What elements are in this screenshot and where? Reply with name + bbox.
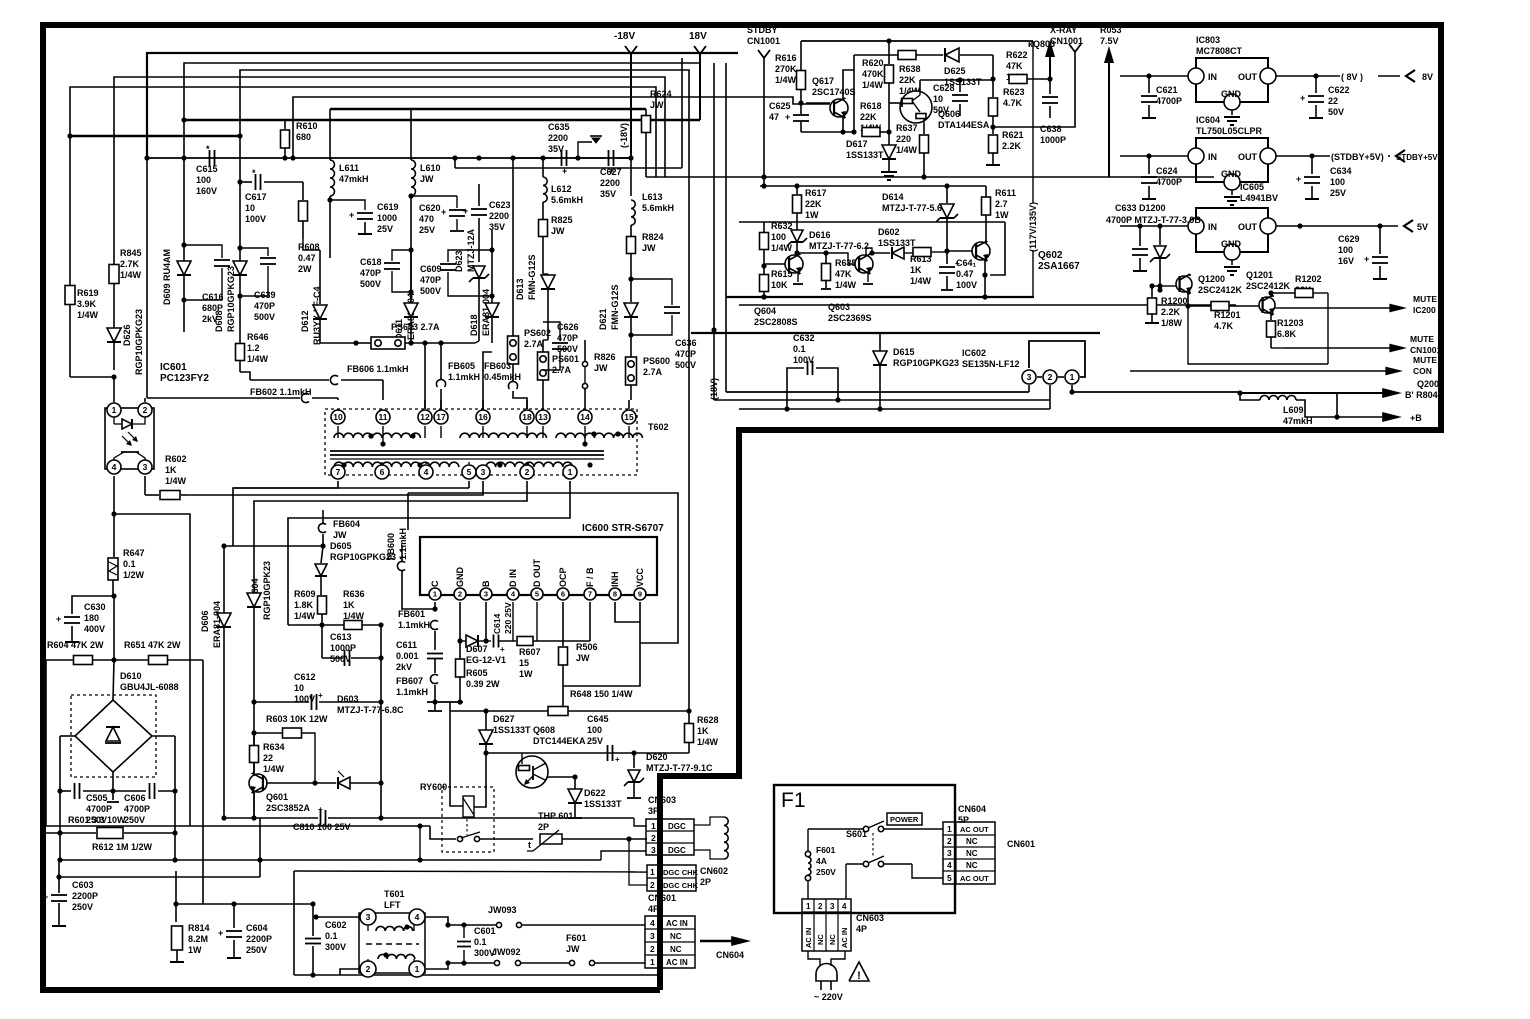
svg-text:2.7: 2.7: [995, 199, 1008, 209]
svg-text:2: 2: [143, 405, 148, 415]
svg-text:PS602: PS602: [524, 328, 551, 338]
wire sec rail y158: [147, 157, 631, 159]
svg-text:OUT: OUT: [1238, 152, 1258, 162]
svg-text:CON: CON: [1413, 366, 1432, 376]
svg-text:4P: 4P: [856, 924, 867, 934]
wire q606 collector rail: [920, 79, 993, 81]
wire pin16 up: [483, 352, 492, 409]
svg-text:4700P: 4700P: [1156, 96, 1182, 106]
svg-text:470: 470: [419, 214, 434, 224]
svg-text:AC IN: AC IN: [666, 919, 688, 928]
wire cn602 feeds: [629, 839, 647, 885]
svg-text:DGC CHK: DGC CHK: [663, 881, 699, 890]
svg-text:+: +: [1300, 93, 1305, 103]
svg-text:C606: C606: [124, 793, 146, 803]
svg-text:FB600: FB600: [386, 533, 396, 560]
wire y753 line: [486, 752, 575, 754]
svg-text:1000P: 1000P: [1040, 135, 1066, 145]
svg-text:D OUT: D OUT: [532, 559, 542, 588]
svg-text:C604: C604: [246, 923, 268, 933]
svg-text:R637: R637: [896, 123, 918, 133]
svg-text:NC: NC: [966, 837, 978, 846]
svg-text:2: 2: [947, 836, 952, 846]
svg-text:(18V): (18V): [709, 378, 719, 400]
svg-text:JW: JW: [551, 226, 565, 236]
wire y904 row: [175, 871, 177, 904]
svg-text:1/4W: 1/4W: [294, 611, 316, 621]
svg-text:2200P: 2200P: [72, 891, 98, 901]
svg-text:R624: R624: [650, 89, 672, 99]
svg-text:1: 1: [651, 821, 656, 831]
wire control bottom mini-rail: [801, 131, 855, 133]
svg-text:D605: D605: [330, 541, 352, 551]
svg-text:D IN: D IN: [508, 569, 518, 587]
wire L6 top rail: [330, 108, 646, 110]
svg-text:2200P: 2200P: [246, 934, 272, 944]
svg-text:C633 D1200: C633 D1200: [1115, 203, 1166, 213]
svg-text:1/2W: 1/2W: [123, 570, 145, 580]
svg-text:R053: R053: [1100, 25, 1122, 35]
svg-text:C505: C505: [86, 793, 108, 803]
svg-text:3: 3: [651, 845, 656, 855]
transformer T602 core: [330, 450, 604, 452]
wire row ac4: [448, 924, 496, 926]
svg-text:C625: C625: [769, 101, 791, 111]
svg-text:4: 4: [947, 860, 952, 870]
svg-text:2.2K: 2.2K: [1161, 307, 1181, 317]
svg-text:3: 3: [366, 912, 371, 922]
svg-text:JW: JW: [576, 653, 590, 663]
svg-text:4.7K: 4.7K: [1214, 321, 1234, 331]
wire R612 row: [59, 833, 61, 860]
svg-text:R619: R619: [77, 288, 99, 298]
svg-text:NC: NC: [670, 932, 682, 941]
svg-text:( 8V ): ( 8V ): [1341, 72, 1363, 82]
ground near C635: [578, 142, 592, 158]
svg-text:+: +: [1296, 174, 1301, 184]
svg-text:5P: 5P: [958, 815, 969, 825]
svg-text:1.2: 1.2: [247, 343, 260, 353]
svg-text:D606: D606: [200, 610, 210, 632]
svg-text:+: +: [500, 645, 505, 654]
svg-text:2W: 2W: [298, 264, 312, 274]
svg-text:3: 3: [830, 902, 835, 911]
svg-text:OCP: OCP: [558, 567, 568, 587]
svg-text:35V: 35V: [489, 222, 505, 232]
svg-text:1/4W: 1/4W: [697, 737, 719, 747]
svg-text:8: 8: [613, 590, 617, 599]
svg-text:22: 22: [263, 753, 273, 763]
svg-text:R1201: R1201: [1214, 310, 1241, 320]
svg-text:680: 680: [296, 132, 311, 142]
F1 box: [774, 785, 955, 913]
svg-text:L609: L609: [1283, 405, 1304, 415]
svg-text:RGP10GPKG23: RGP10GPKG23: [893, 358, 959, 368]
svg-text:+: +: [318, 691, 323, 700]
svg-text:9: 9: [638, 590, 642, 599]
svg-text:1.1mkH: 1.1mkH: [398, 528, 408, 560]
svg-text:8V: 8V: [1422, 72, 1433, 82]
svg-text:MTZJ-T-77-5.6C: MTZJ-T-77-5.6C: [882, 203, 949, 213]
svg-text:C635: C635: [548, 122, 570, 132]
svg-text:C609: C609: [420, 264, 442, 274]
svg-text:NC: NC: [966, 861, 978, 870]
svg-text:R814: R814: [188, 923, 210, 933]
svg-text:C645: C645: [587, 714, 609, 724]
svg-text:47mkH: 47mkH: [339, 174, 369, 184]
svg-text:IC200: IC200: [1413, 305, 1436, 315]
svg-text:0.001: 0.001: [396, 651, 419, 661]
svg-text:1/4W: 1/4W: [165, 476, 187, 486]
svg-text:C619: C619: [377, 202, 399, 212]
svg-text:1: 1: [947, 824, 952, 834]
svg-text:2P: 2P: [538, 822, 549, 832]
svg-text:Q604: Q604: [754, 306, 776, 316]
svg-text:25V: 25V: [1330, 188, 1346, 198]
svg-text:AC IN: AC IN: [804, 928, 813, 948]
svg-text:F601: F601: [816, 845, 836, 855]
svg-text:C603: C603: [72, 880, 94, 890]
svg-text:C636: C636: [675, 338, 697, 348]
wire FB602 left: [146, 158, 148, 398]
svg-text:18V: 18V: [689, 31, 707, 42]
svg-text:0.1: 0.1: [123, 559, 136, 569]
svg-text:1/4W: 1/4W: [263, 764, 285, 774]
svg-text:25V: 25V: [587, 736, 603, 746]
svg-text:MUTE: MUTE: [1413, 294, 1437, 304]
wire bus nest top-left: [147, 53, 738, 160]
diode D1200 zener: [1154, 246, 1166, 258]
wire STDBY+5V output: [1120, 155, 1188, 157]
wire control top rail: [801, 40, 1033, 42]
svg-text:1: 1: [568, 467, 573, 477]
svg-text:1/4W: 1/4W: [862, 80, 884, 90]
svg-text:50V: 50V: [933, 105, 949, 115]
svg-text:(STDBY+5V): (STDBY+5V): [1331, 152, 1384, 162]
wire s601 bottom: [846, 863, 863, 865]
svg-text:C614: C614: [492, 613, 502, 634]
arrow CN604 out: [700, 940, 737, 943]
svg-text:R605: R605: [466, 668, 488, 678]
wire t602 pin7 chain: [233, 481, 338, 546]
svg-text:2SC2369S: 2SC2369S: [828, 313, 872, 323]
svg-text:0.39 2W: 0.39 2W: [466, 679, 500, 689]
svg-text:5V: 5V: [1417, 222, 1428, 232]
wire snubber top feeds: [410, 250, 412, 302]
svg-text:250V: 250V: [124, 815, 145, 825]
svg-text:3.9K: 3.9K: [77, 299, 97, 309]
svg-text:4700P: 4700P: [1156, 177, 1182, 187]
svg-text:300V: 300V: [325, 942, 346, 952]
svg-text:R616: R616: [775, 53, 797, 63]
svg-text:Q603: Q603: [828, 302, 850, 312]
svg-text:R618: R618: [860, 101, 882, 111]
svg-text:MTZJ-T-77-6.8C: MTZJ-T-77-6.8C: [337, 705, 404, 715]
svg-text:16: 16: [478, 412, 488, 422]
svg-text:DGC: DGC: [668, 822, 686, 831]
svg-text:IC602: IC602: [962, 348, 986, 358]
svg-text:R628: R628: [697, 715, 719, 725]
svg-text:MUTE: MUTE: [1410, 334, 1434, 344]
svg-text:R824: R824: [642, 232, 664, 242]
svg-text:D610: D610: [120, 671, 142, 681]
svg-text:470P: 470P: [254, 301, 275, 311]
svg-text:2SC3852A: 2SC3852A: [266, 803, 311, 813]
svg-text:F1: F1: [781, 789, 806, 812]
svg-text:100: 100: [196, 175, 211, 185]
svg-text:DGC CHK: DGC CHK: [663, 868, 699, 877]
svg-text:6: 6: [380, 467, 385, 477]
wire t602 pin5 chain: [468, 481, 470, 488]
svg-text:6: 6: [561, 590, 565, 599]
svg-text:4A: 4A: [816, 856, 827, 866]
svg-text:TL750L05CLPR: TL750L05CLPR: [1196, 126, 1263, 136]
svg-text:D617: D617: [846, 139, 868, 149]
svg-text:0.1: 0.1: [793, 344, 806, 354]
warning triangle: [849, 962, 869, 981]
svg-text:MC7808CT: MC7808CT: [1196, 46, 1243, 56]
svg-text:CN602: CN602: [700, 866, 728, 876]
svg-text:1/4W: 1/4W: [835, 280, 857, 290]
svg-text:JW: JW: [333, 530, 347, 540]
svg-text:C630: C630: [84, 602, 106, 612]
IC600 pins: [429, 588, 441, 600]
svg-text:100: 100: [1330, 177, 1345, 187]
svg-text:500V: 500V: [330, 654, 351, 664]
svg-text:1: 1: [650, 867, 655, 877]
transformer T602 top pins: [331, 410, 345, 424]
svg-text:VCC: VCC: [635, 567, 645, 587]
degauss coil: [694, 817, 724, 825]
svg-text:7.5V: 7.5V: [1100, 36, 1119, 46]
svg-text:*: *: [252, 168, 256, 178]
svg-text:2: 2: [650, 880, 655, 890]
wire cn603 plug: [808, 951, 820, 966]
svg-text:D620: D620: [646, 752, 668, 762]
svg-text:2: 2: [650, 944, 655, 954]
svg-text:2200: 2200: [600, 178, 620, 188]
svg-text:1SS133T: 1SS133T: [846, 150, 884, 160]
svg-text:100V: 100V: [793, 355, 814, 365]
svg-text:Q601: Q601: [266, 792, 288, 802]
svg-text:STDBY+5V: STDBY+5V: [1396, 153, 1438, 162]
svg-text:R607: R607: [519, 647, 541, 657]
svg-text:C620: C620: [419, 203, 441, 213]
svg-text:1SS133T: 1SS133T: [878, 238, 916, 248]
svg-text:15: 15: [624, 412, 634, 422]
wire y877 rail: [59, 876, 260, 878]
svg-text:GND: GND: [1221, 89, 1242, 99]
svg-text:D614: D614: [882, 192, 904, 202]
svg-text:NC: NC: [670, 945, 682, 954]
svg-text:250V: 250V: [816, 867, 836, 877]
svg-text:L4941BV: L4941BV: [1240, 193, 1278, 203]
svg-text:C629: C629: [1338, 234, 1360, 244]
svg-text:R825: R825: [551, 215, 573, 225]
svg-text:13: 13: [538, 412, 548, 422]
wire R638 line: [854, 54, 898, 56]
wire row2 bottom rail: [726, 296, 1034, 298]
svg-text:1: 1: [806, 902, 811, 911]
svg-text:C601: C601: [474, 926, 496, 936]
svg-text:22: 22: [1328, 96, 1338, 106]
wire t602 pin1 chain: [288, 481, 570, 625]
svg-text:22K: 22K: [899, 75, 916, 85]
svg-text:1/4W: 1/4W: [77, 310, 99, 320]
svg-text:3: 3: [947, 848, 952, 858]
svg-text:1W: 1W: [519, 669, 533, 679]
svg-text:DGC: DGC: [668, 846, 686, 855]
wire mid horizontals: [224, 545, 323, 547]
svg-text:t: t: [528, 840, 531, 850]
POWER label: [887, 813, 922, 825]
svg-text:3: 3: [484, 590, 488, 599]
svg-text:L612: L612: [551, 184, 572, 194]
svg-text:2: 2: [651, 833, 656, 843]
svg-text:+: +: [349, 210, 354, 220]
svg-text:+B: +B: [1410, 413, 1422, 423]
svg-text:2: 2: [458, 590, 462, 599]
svg-text:10: 10: [933, 94, 943, 104]
wire bottom rail y975: [294, 974, 658, 976]
svg-text:1/4W: 1/4W: [771, 243, 793, 253]
wire bus crossing verticals: [681, 58, 683, 168]
svg-text:2P: 2P: [700, 877, 711, 887]
svg-text:IC604: IC604: [1196, 115, 1220, 125]
svg-text:R612 1M 1/2W: R612 1M 1/2W: [92, 842, 153, 852]
svg-text:2SC2412K: 2SC2412K: [1246, 281, 1291, 291]
wire row ac1: [448, 962, 494, 964]
svg-text:D625: D625: [944, 66, 966, 76]
svg-text:NC: NC: [816, 934, 825, 945]
svg-text:+: +: [441, 207, 446, 217]
svg-text:18: 18: [522, 412, 532, 422]
svg-text:IC601: IC601: [160, 362, 187, 373]
wire bottom bus pin12: [427, 701, 463, 703]
wire x381 vertical: [380, 625, 382, 818]
svg-text:C611: C611: [396, 640, 417, 650]
svg-text:470P: 470P: [420, 275, 441, 285]
svg-text:Q200: Q200: [1417, 379, 1439, 389]
svg-text:1: 1: [415, 964, 420, 974]
svg-text:500V: 500V: [675, 360, 696, 370]
svg-text:12: 12: [420, 412, 430, 422]
svg-text:47K: 47K: [1006, 61, 1023, 71]
svg-text:NC: NC: [828, 934, 837, 945]
svg-text:2.2K: 2.2K: [1002, 141, 1022, 151]
transistor Q615: [785, 255, 803, 273]
svg-text:5.6mkH: 5.6mkH: [642, 203, 674, 213]
svg-text:10K: 10K: [771, 280, 788, 290]
svg-text:MTZJ-T-77-9.1C: MTZJ-T-77-9.1C: [646, 763, 713, 773]
svg-text:SE135N-LF12: SE135N-LF12: [962, 359, 1020, 369]
svg-text:C628: C628: [933, 83, 955, 93]
svg-text:250V: 250V: [72, 902, 93, 912]
svg-text:0.1: 0.1: [474, 937, 487, 947]
svg-text:1/4W: 1/4W: [775, 75, 797, 85]
svg-text:100: 100: [771, 232, 786, 242]
svg-text:LFT: LFT: [384, 900, 401, 910]
svg-text:D621: D621: [598, 308, 608, 330]
svg-text:2: 2: [1048, 372, 1053, 382]
svg-text:C623: C623: [489, 200, 511, 210]
svg-text:Q608: Q608: [533, 725, 555, 735]
svg-text:R646: R646: [247, 332, 269, 342]
svg-text:470P: 470P: [675, 349, 696, 359]
wire IC601 connections: [70, 376, 114, 378]
svg-text:*: *: [206, 144, 210, 154]
svg-text:R632: R632: [771, 221, 793, 231]
svg-text:JW092: JW092: [492, 947, 521, 957]
svg-text:C632: C632: [793, 333, 815, 343]
svg-text:500V: 500V: [360, 279, 381, 289]
svg-text:RGP10GPK23: RGP10GPK23: [262, 561, 272, 620]
svg-text:100V: 100V: [245, 214, 266, 224]
svg-text:47: 47: [769, 112, 779, 122]
svg-text:47K: 47K: [835, 269, 852, 279]
svg-text:Q1200: Q1200: [1198, 274, 1225, 284]
svg-text:3: 3: [1027, 372, 1032, 382]
svg-text:400V: 400V: [84, 624, 105, 634]
wire row2 top rail: [760, 185, 986, 187]
svg-text:2: 2: [366, 964, 371, 974]
svg-text:1: 1: [112, 405, 117, 415]
svg-text:470P: 470P: [360, 268, 381, 278]
svg-text:2kV: 2kV: [396, 662, 412, 672]
svg-text:JW: JW: [594, 363, 608, 373]
svg-text:1/8W: 1/8W: [1161, 318, 1183, 328]
wire t601 conns: [316, 916, 359, 918]
svg-text:PC123FY2: PC123FY2: [160, 373, 209, 384]
svg-text:1.1mkH: 1.1mkH: [448, 372, 480, 382]
svg-text:50V: 50V: [1328, 107, 1344, 117]
svg-text:R845: R845: [120, 248, 142, 258]
svg-text:0.1: 0.1: [325, 931, 338, 941]
svg-text:2.7A: 2.7A: [643, 367, 663, 377]
svg-text:R611: R611: [995, 188, 1016, 198]
svg-text:5: 5: [947, 873, 952, 883]
wire 5V output: [1120, 225, 1188, 227]
svg-text:GND: GND: [455, 567, 465, 588]
svg-text:2SA1667: 2SA1667: [1038, 261, 1080, 272]
resistor R648: [548, 707, 568, 716]
svg-text:5: 5: [467, 467, 472, 477]
svg-text:2.7A: 2.7A: [524, 339, 544, 349]
svg-text:JW: JW: [420, 174, 434, 184]
wire vcc loop: [615, 602, 640, 622]
wire pin12 up: [424, 343, 426, 409]
jumper JW093: [496, 922, 501, 927]
svg-text:C638: C638: [1040, 124, 1062, 134]
svg-text:4: 4: [650, 918, 655, 928]
svg-text:MTZJ-T-77-6.2: MTZJ-T-77-6.2: [809, 241, 869, 251]
svg-text:+: +: [218, 928, 223, 938]
svg-text:7: 7: [336, 467, 341, 477]
svg-text:INH: INH: [610, 572, 620, 588]
transformer T602 top coils: [334, 433, 420, 438]
svg-text:RGP10GPKG23: RGP10GPKG23: [134, 309, 144, 375]
svg-text:DTA144ESA: DTA144ESA: [938, 120, 990, 130]
wire mute frame: [1188, 306, 1328, 364]
svg-text:1W: 1W: [995, 210, 1009, 220]
svg-text:1W: 1W: [188, 945, 202, 955]
svg-text:R506: R506: [576, 642, 598, 652]
svg-text:!: !: [857, 970, 861, 982]
svg-text:PS601: PS601: [552, 354, 579, 364]
svg-text:MUTE: MUTE: [1413, 355, 1437, 365]
svg-text:1SS133T: 1SS133T: [493, 725, 531, 735]
svg-text:D603: D603: [337, 694, 359, 704]
